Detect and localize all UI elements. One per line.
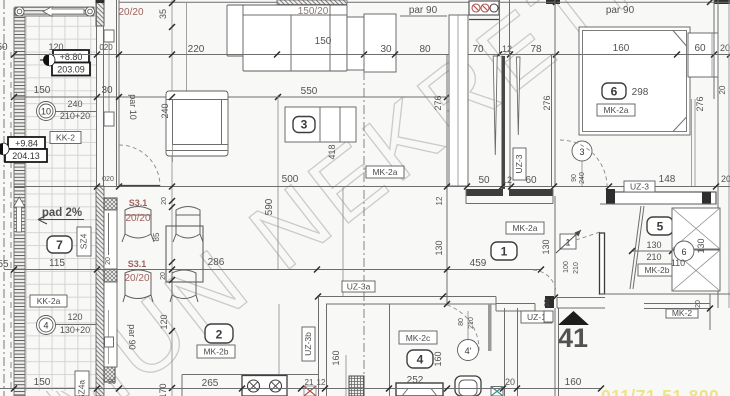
room5 top line [600,203,716,205]
svg-text:60: 60 [694,43,706,54]
shaft right face lines [116,0,118,186]
dining chair top-right [173,207,203,243]
svg-text:30: 30 [101,85,113,96]
svg-text:550: 550 [301,86,318,97]
sofa right armrest line [329,5,331,71]
svg-text:150: 150 [315,36,332,47]
svg-text:120: 120 [67,312,82,322]
svg-text:210: 210 [646,252,661,262]
svg-text:SZ4a: SZ4a [77,380,87,396]
label KK-2a [30,295,67,307]
shaft bay 1 [104,210,117,269]
svg-text:240: 240 [160,103,170,118]
dining table [166,226,203,282]
top facade wall line [119,1,730,3]
label SZ4 (vertical) [77,227,91,256]
svg-text:210: 210 [573,262,580,274]
svg-text:85: 85 [152,232,161,241]
hall/living extent line [342,186,344,296]
dimension ticks y=54 [11,52,730,58]
svg-text:30: 30 [380,44,392,55]
svg-text:20: 20 [505,377,515,387]
svg-text:20: 20 [108,379,116,386]
room5 door leaf (slanted) [630,206,644,289]
svg-text:276: 276 [695,96,705,111]
wardrobe lower (X) [672,250,720,291]
cooktop burner red 1 [472,4,480,12]
tick entrance right [552,295,713,312]
hall left wall below entrance [517,308,519,396]
svg-text:1: 1 [501,245,508,259]
hall wall above bathroom step [496,297,535,312]
entrance triangle marker [558,311,589,325]
svg-text:UZ-3a: UZ-3a [347,282,371,292]
svg-text:50: 50 [0,42,8,53]
svg-text:par 10: par 10 [128,94,138,120]
exterior wall left (hatched) [14,8,25,396]
svg-text:SZ4: SZ4 [79,233,89,249]
lower shaft wall (hatched) [96,186,104,396]
ticks wall y296 [315,294,450,308]
svg-text:203.09: 203.09 [57,65,85,75]
svg-text:240: 240 [579,172,586,184]
label UZ-3 (horizontal) [624,181,655,192]
dim extent line x172 [171,0,173,396]
toilet [455,376,481,396]
svg-text:150/20: 150/20 [298,6,329,17]
svg-text:UZ-1: UZ-1 [527,312,546,322]
svg-text:7: 7 [56,238,63,252]
svg-text:220: 220 [188,44,205,55]
cooktop box [469,1,499,15]
dining chair top-left [122,207,154,243]
svg-text:252: 252 [407,375,424,386]
top wall stubs (dark) [546,0,560,4]
svg-text:20: 20 [695,300,702,308]
stair up-arrow in left wall [17,206,22,232]
sofa body [243,5,347,71]
svg-text:41: 41 [558,323,588,353]
svg-text:MK-2b: MK-2b [203,347,228,357]
nightstand right of bed [688,33,718,77]
svg-text:KK-2a: KK-2a [37,296,61,306]
direction arrow in railing [43,7,84,17]
svg-text:80: 80 [458,318,465,326]
sink grid box [349,376,364,396]
ticks y=186 [94,184,719,190]
bedroom right wall [714,0,718,308]
svg-text:150: 150 [34,377,51,388]
svg-text:S3.1: S3.1 [128,259,147,269]
svg-text:500: 500 [282,174,299,185]
svg-text:70: 70 [472,44,484,55]
svg-text:20: 20 [105,257,112,265]
svg-text:160: 160 [565,377,582,388]
kitchen right wall (down) [319,297,327,396]
svg-text:+9.84: +9.84 [15,139,38,149]
svg-text:5: 5 [657,220,664,234]
kitchen counter bottom [182,374,318,376]
svg-text:160: 160 [433,351,443,366]
hall wall underside [466,189,553,204]
svg-text:UZ-3: UZ-3 [630,182,649,192]
armchair [166,91,228,156]
window 150/20 hatched sill [277,0,347,5]
label MK-2 small (outside corridor) [666,309,698,318]
long dimension line y=186 [14,186,730,188]
svg-text:100: 100 [563,261,570,273]
svg-text:MK-2a: MK-2a [372,167,397,177]
level marker +9.84 [8,137,45,149]
svg-text:S3.1: S3.1 [129,198,148,208]
dim line 130/210 room5 [632,250,676,252]
svg-text:210: 210 [468,317,475,329]
svg-text:286: 286 [208,257,225,268]
svg-text:110: 110 [671,258,685,268]
leader line node 10 [56,111,97,113]
bathroom door swing arc [447,305,479,351]
armchair back band [166,99,228,101]
label MK-2a (living) [366,166,404,178]
ticks y=97 [11,94,450,100]
svg-text:160: 160 [331,350,341,365]
cooktop shelf line [469,19,499,21]
level marker +8.80 [53,50,89,63]
bathroom left wall [389,304,391,396]
stove 4 burners [242,376,287,396]
svg-text:12: 12 [502,44,512,54]
column block (cross hatch) upper [104,198,117,210]
counter inner line [457,15,459,186]
level marker 203.09 [52,63,90,76]
svg-text:240: 240 [67,99,82,109]
bathroom counter [396,383,443,396]
shaft flue box upper [104,30,114,42]
svg-text:50: 50 [478,175,490,186]
column block (cross hatch) mid [104,269,117,282]
ticks bottom [11,386,604,392]
svg-text:55: 55 [0,259,9,270]
ticks x172 [169,94,175,391]
svg-text:21: 21 [305,378,314,387]
svg-text:130+20: 130+20 [60,325,90,335]
svg-text:UZ-3b: UZ-3b [303,332,313,356]
level marker 204.13 [5,149,47,162]
svg-text:MK-2c: MK-2c [406,333,431,343]
room number 6 [602,83,626,99]
sofa left armrest [227,5,244,56]
section node square 1 [560,234,576,249]
column block (cross hatch) bottom [104,367,115,382]
armchair bottom band [166,145,228,151]
thick wall hall top left [466,189,503,196]
svg-text:150: 150 [34,85,51,96]
shaft bay 1 mark [108,213,110,255]
parapet sill line [400,15,447,17]
svg-text:459: 459 [470,258,487,269]
node 4 leader [467,311,469,339]
bathroom right wall [504,308,506,396]
axis dash-dot x364 [363,54,365,396]
armchair foot [172,145,174,163]
label MK-2a (hall) [506,222,544,234]
open door leaf (corridor) [517,57,521,135]
svg-text:MK-2a: MK-2a [512,223,537,233]
svg-text:130: 130 [541,239,551,254]
dining chair bottom-left [123,270,153,302]
svg-text:210+20: 210+20 [60,111,90,121]
room number 5 [647,217,673,235]
svg-text:20: 20 [720,43,730,53]
node 3 leader [581,161,583,186]
thick wall kitchen/hall [502,56,506,189]
svg-text:90: 90 [571,174,578,182]
svg-text:4': 4' [465,346,472,356]
svg-text:011/71-51-800: 011/71-51-800 [601,386,719,396]
red service box [304,386,316,396]
dimension chain y=97 [14,96,447,98]
desk divider 2 [339,107,341,142]
wall piece left of room5 door [600,233,605,294]
main dimension chain y=54 [14,54,730,56]
svg-text:par 90: par 90 [606,5,635,16]
svg-text:20: 20 [718,85,727,94]
desk divider 1 [319,107,321,142]
level symbol half circle [43,54,49,66]
svg-text:298: 298 [632,87,649,98]
kitchen line left of sink [345,355,347,396]
svg-text:20: 20 [161,197,168,205]
svg-text:418: 418 [327,144,337,159]
living bottom wall band [318,296,496,298]
svg-text:130: 130 [434,240,444,255]
desk room3 [285,107,356,142]
label MK-2b (kitchen) [197,345,235,358]
circled node 4 [37,316,56,335]
circled node 4' [458,340,479,361]
svg-text:120: 120 [48,42,63,52]
bed cover fold bottom right [673,117,687,132]
door of room KK-2 (swing arc) [119,145,160,186]
svg-text:160: 160 [613,43,630,54]
svg-text:170: 170 [158,383,168,396]
entrance lobby walls [557,298,605,309]
svg-text:20: 20 [721,174,730,184]
svg-text:12: 12 [502,175,512,185]
kitchen counter side line [278,304,280,374]
sideboard piece 1 [347,17,364,70]
svg-text:590: 590 [264,198,275,215]
svg-text:78: 78 [530,44,542,55]
extent line x186 [186,2,188,97]
label SZ4a vertical [75,371,89,396]
dining chair bottom-right [170,270,198,302]
boundary dashed line left [10,52,12,392]
sideboard piece 2 [364,14,396,72]
dim extent x278 [277,95,279,269]
svg-text:12: 12 [435,196,444,205]
door frame bar [488,304,492,351]
entry door swing arc [533,270,556,291]
hall wall line [509,54,511,189]
property line (dash-dot) left [3,0,5,396]
sofa cushion divider [290,15,292,71]
room number 3 [293,117,315,133]
svg-text:276: 276 [433,95,443,110]
svg-text:265: 265 [202,378,219,389]
level symbol half circle 2 [0,143,3,155]
sofa back line [243,14,347,16]
label UZ-1 [521,311,552,323]
svg-text:204.13: 204.13 [12,151,40,161]
room number 7 [47,236,72,253]
room number 2 [205,324,233,343]
label MK-2b (room5) [638,264,676,276]
leader line node 4 [56,324,97,326]
svg-text:3: 3 [301,118,308,132]
label MK-2c [399,331,437,344]
label UZ-3a [342,281,375,292]
terrace railing top (hatched band) [15,7,94,16]
door leaf room KK-2 [119,185,160,187]
corridor bottom wall [612,192,716,204]
svg-text:6: 6 [681,247,686,257]
bedroom door circled node 3 [572,141,592,161]
svg-text:par 90: par 90 [409,5,438,16]
wardrobe upper (X) [672,208,720,249]
svg-text:35: 35 [158,9,168,19]
svg-text:MK-2: MK-2 [672,308,693,318]
corridor outside walls bottom right [644,294,710,330]
bedroom door swing arc [560,140,607,186]
label KK-2 [50,132,81,144]
svg-text:120: 120 [159,314,169,329]
svg-text:UZ-3: UZ-3 [514,154,524,173]
shaft bay 2 mark [108,310,110,364]
svg-text:3: 3 [579,147,584,157]
svg-text:MK-2b: MK-2b [644,265,669,275]
svg-text:148: 148 [659,174,676,185]
svg-text:MK-2a: MK-2a [603,105,628,115]
hall walls below entrance [555,308,559,396]
slope arrow [38,215,84,224]
shaft flue box lower [104,112,114,126]
shaft wall inner face [103,26,105,186]
svg-text:130: 130 [696,238,706,253]
svg-text:+8.80: +8.80 [60,52,83,62]
wall 12 between kitchen and hall (upper) [500,0,510,56]
railing post circle right [85,7,94,16]
shaft divider line [108,42,110,112]
living/kitchen boundary line x447 [446,54,448,303]
small box left of entrance [544,311,553,322]
svg-text:276: 276 [542,95,552,110]
ticks top edge [169,0,713,30]
shaft wall left face [96,0,98,396]
kitchen tall counter right of living [449,15,468,186]
wardrobe lines right of bed [692,99,696,186]
svg-text:020: 020 [102,176,114,183]
svg-text:2: 2 [216,328,223,342]
bedroom wall left [554,0,556,186]
section node arrow [556,230,581,253]
cooktop burner 3 [490,4,498,12]
corridor wall line [551,54,553,186]
dimension line y=269 [4,269,541,271]
terrace floor tile grid [25,15,96,391]
entry door jamb block [545,296,554,308]
armchair arm lines [173,100,222,145]
circled node 6 [674,241,694,261]
central shaft wall column: top hatched head [96,0,104,26]
railing post circle left [15,7,24,16]
open door leaf (kitchen) [493,56,497,155]
room number 4 [407,350,433,368]
svg-text:10: 10 [41,107,51,117]
label UZ-3 (vertical, corridor) [513,148,526,180]
svg-text:4: 4 [43,321,48,331]
hall right wall x555 [554,196,556,297]
svg-text:4: 4 [417,353,424,367]
svg-text:par 90: par 90 [127,324,137,350]
svg-text:pad 2%: pad 2% [42,207,82,219]
thick wall hall top right [509,189,553,196]
bed cover fold top right [673,31,687,47]
svg-text:20: 20 [544,299,551,307]
shaft bay 2 [104,282,117,367]
svg-text:12: 12 [317,378,326,387]
svg-text:20/20: 20/20 [125,213,150,224]
cooktop burner red 2 [481,4,489,12]
svg-text:20: 20 [160,272,167,280]
room number 1 [491,242,517,260]
bottom line of room5 zone [600,293,730,295]
svg-text:020: 020 [99,43,113,52]
label UZ-3b vertical [302,327,315,361]
svg-text:115: 115 [49,258,65,269]
svg-text:20/20: 20/20 [124,273,149,284]
svg-text:6: 6 [611,85,618,99]
bottom dimension line [0,388,601,390]
ticks y=269 [11,267,544,273]
bed double outline [579,27,690,135]
svg-text:20/20: 20/20 [118,7,143,18]
svg-text:60: 60 [525,175,537,186]
label MK-2a (bedroom) [597,104,635,116]
svg-text:130: 130 [646,240,661,250]
svg-text:KK-2: KK-2 [56,133,75,143]
svg-text:80: 80 [419,44,431,55]
washer teal box [491,387,503,396]
circled node 10 [37,102,56,121]
section node dashed leader [576,232,600,240]
